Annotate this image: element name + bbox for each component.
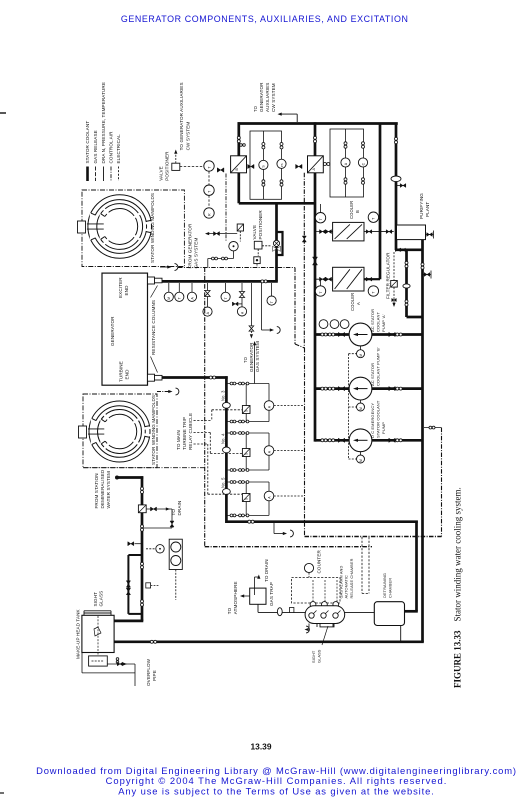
purifier riser branch valve: [396, 184, 406, 188]
gauges in right loop: [341, 142, 368, 184]
controller circle: [229, 242, 238, 251]
svg-text:AC STATOR: AC STATOR: [370, 363, 375, 386]
wire: manifold bus: [225, 376, 228, 523]
blowdown drain arrow: [249, 283, 254, 339]
svg-text:POSITIONER: POSITIONER: [165, 151, 170, 181]
svg-text:FROM STATION: FROM STATION: [94, 473, 99, 508]
svg-text:No. 3: No. 3: [220, 390, 225, 401]
svg-text:DEMINERALISED: DEMINERALISED: [100, 469, 105, 508]
positioner 2 dashes to valve: [258, 246, 271, 256]
label DC EMERGENCY STATOR COOLANT PUMP: [370, 400, 386, 438]
winding circuit No. 3 branch: [220, 382, 303, 423]
valve dots on exciter pipe: [261, 280, 267, 283]
svg-text:M: M: [167, 297, 171, 300]
pump row valve dots: [321, 333, 335, 442]
loop seal on downcomer: [277, 232, 283, 255]
svg-text:ELECTRICAL: ELECTRICAL: [116, 134, 121, 164]
label GAS TRAP: [269, 582, 274, 606]
level switch rack: [169, 539, 182, 600]
svg-text:TO: TO: [227, 607, 232, 614]
flow element on bypass: [403, 261, 410, 306]
stray scan mark left edge: [0, 113, 6, 793]
strainer B: [231, 156, 247, 173]
control air main (dash-dot): [178, 173, 306, 537]
wire: cold header to detraining: [226, 520, 417, 523]
purifier vent valve: [426, 231, 434, 239]
svg-text:TO MAIN: TO MAIN: [176, 430, 181, 450]
detraining chamber drain: [400, 626, 402, 641]
wire: exciter-end stator coolant pipe: [162, 280, 278, 283]
svg-text:T: T: [319, 292, 323, 294]
valve: strainer B outlet: [248, 164, 254, 168]
gauge T1: [204, 161, 214, 171]
gas trap outlet: [257, 604, 259, 612]
release chamber instrument dashed box: [292, 578, 341, 604]
control air left drop (dash-dot): [204, 268, 206, 547]
winding circuit No. 5 branch: [220, 477, 303, 517]
svg-text:COUNTER: COUNTER: [317, 550, 322, 574]
return bus vent valve: [423, 271, 432, 279]
make-up head tank: [82, 611, 114, 653]
wire: cooler riser: [379, 124, 382, 280]
gas trap to atmosphere: [240, 594, 250, 597]
svg-text:FIGURE 13.33 Stator winding w: FIGURE 13.33 Stator winding water coolin…: [453, 487, 463, 688]
relay cubicle dashed lines: [194, 410, 243, 494]
wire: make-up water supply: [114, 476, 143, 621]
valve positioner 1 box: [172, 163, 180, 170]
positioner relay box 2: [254, 257, 260, 268]
svg-text:T: T: [207, 191, 211, 193]
page number: [251, 742, 272, 752]
label TURBINE END: [119, 361, 130, 382]
svg-text:DRA N, PRESSURE, TEMPERATURE: DRA N, PRESSURE, TEMPERATURE: [101, 82, 106, 164]
svg-text:S: S: [245, 498, 249, 500]
svg-text:T: T: [270, 301, 274, 303]
svg-text:MAKE-UP HEAD TANK: MAKE-UP HEAD TANK: [76, 608, 81, 659]
pressure reducer on riser: [138, 487, 146, 606]
gauge T right: [267, 283, 276, 305]
svg-text:TO: TO: [243, 356, 248, 363]
instrument loop rect (left CW): [250, 131, 282, 199]
svg-text:FILTER REGULATOR: FILTER REGULATOR: [386, 252, 391, 299]
valve dots cold header: [248, 520, 254, 523]
controller relay box: [237, 224, 243, 231]
svg-text:T: T: [178, 297, 182, 299]
cooler B inlet valves: [315, 230, 333, 234]
svg-text:GENERATOR: GENERATOR: [249, 342, 254, 372]
svg-text:GLASS: GLASS: [317, 649, 322, 663]
svg-text:T: T: [224, 297, 228, 299]
label AC STATOR COOLANT PUMP B: [370, 347, 381, 386]
svg-text:DRAIN: DRAIN: [177, 501, 182, 516]
svg-text:GAS SYSTEM: GAS SYSTEM: [255, 341, 260, 372]
svg-text:END: END: [124, 285, 129, 296]
level gauge with dashes: [146, 545, 164, 553]
gas trap box: [250, 588, 266, 604]
gauge T cooler B: [315, 204, 378, 223]
wire: bypass leg: [407, 250, 423, 317]
gas release chamber vessel: [305, 602, 345, 627]
svg-text:No. 4: No. 4: [220, 433, 225, 444]
svg-text:SIGHT: SIGHT: [311, 650, 316, 663]
drain with valve and gauge A2: [232, 283, 246, 316]
svg-text:GAS SYSTEM: GAS SYSTEM: [194, 238, 199, 269]
label TO ATMOSPHERE: [227, 581, 238, 614]
svg-text:FROM GENERATOR: FROM GENERATOR: [188, 223, 193, 268]
svg-text:CW SYSTEM: CW SYSTEM: [271, 83, 276, 112]
stator winding manifold 1 enclosure (dash-dot box): [82, 190, 184, 267]
svg-text:TO: TO: [253, 105, 258, 112]
exciter end bushing: [148, 277, 163, 284]
svg-text:PLANT: PLANT: [425, 202, 430, 217]
svg-text:STATOR WINDING MANIFOLDS: STATOR WINDING MANIFOLDS: [150, 193, 155, 263]
svg-text:VALVE: VALVE: [159, 166, 164, 181]
wire: CW heat-exchanger box outline: [238, 122, 398, 441]
svg-text:T: T: [319, 218, 323, 220]
turbine end bushing: [148, 374, 163, 381]
svg-text:PIPE: PIPE: [152, 670, 157, 681]
svg-text:CHAMBER: CHAMBER: [388, 578, 393, 598]
svg-text:M: M: [359, 459, 363, 462]
to generator gas system arrow (mid): [243, 341, 260, 384]
to drain branch: [143, 501, 182, 528]
svg-text:T: T: [372, 218, 376, 220]
valve on supply bus: [313, 257, 318, 265]
svg-text:WATER SYSTEM: WATER SYSTEM: [106, 471, 111, 509]
wire: cooled water downcomer: [275, 203, 278, 281]
svg-text:COOLANT: COOLANT: [376, 312, 381, 332]
counter: [304, 550, 321, 578]
resistance column gauges: [164, 283, 196, 301]
svg-text:D C EMERGENCY: D C EMERGENCY: [370, 403, 375, 438]
svg-text:AUXILIARIES: AUXILIARIES: [265, 83, 270, 112]
label FROM STATION DEMINERALISED WATER SYSTEM: [94, 469, 111, 508]
page header running title: [121, 14, 409, 24]
svg-text:TO: TO: [171, 509, 176, 516]
svg-text:TO GENERATOR AUXILIARIES: TO GENERATOR AUXILIARIES: [179, 82, 184, 150]
svg-text:RESISTANCE COLUMNS: RESISTANCE COLUMNS: [151, 300, 156, 355]
winding circuit No. 4 branch: [220, 432, 303, 472]
svg-text:GAS RELEASE: GAS RELEASE: [93, 130, 98, 163]
stator winding manifold 2 symbol: [88, 401, 151, 462]
svg-text:A: A: [356, 302, 361, 305]
pump discharge valves: [338, 332, 402, 442]
svg-text:SIGHT: SIGHT: [93, 592, 98, 607]
label TO GENERATOR AUXILIARIES CW SYSTEM (left): [179, 82, 191, 150]
controller output to control main: [208, 251, 234, 268]
svg-text:COOLER: COOLER: [350, 293, 355, 311]
svg-text:GLASS: GLASS: [99, 591, 104, 607]
label GENERATOR: [110, 316, 115, 346]
cooler A inlet valves: [315, 277, 333, 281]
label PURIFYING PLANT: [419, 193, 430, 219]
label MAKE-UP HEAD TANK: [76, 608, 81, 659]
tank level controller: [89, 653, 119, 667]
cooler A outlet: [364, 277, 380, 281]
label AC STATOR COOLANT PUMP A: [370, 309, 386, 332]
svg-text:GAS TRAP: GAS TRAP: [269, 582, 274, 606]
label RESISTANCE COLUMNS: [151, 286, 158, 373]
svg-text:GENERATOR COMPONENTS, AUXILIAR: GENERATOR COMPONENTS, AUXILIARIES, AND E…: [121, 14, 409, 24]
svg-text:CONTROL AIR: CONTROL AIR: [109, 131, 114, 164]
footer copyright lines: [36, 765, 517, 797]
dashed junction box: [362, 537, 369, 593]
strainer A: [308, 156, 324, 173]
wire: pump row DC: [315, 439, 423, 442]
gauges in left CW loop: [259, 143, 286, 187]
generator body box: [102, 273, 148, 385]
valves on CW box left leg: [237, 136, 316, 146]
valve dots bottom header: [150, 640, 156, 643]
gauge T (pipe): [221, 283, 230, 301]
gas trap to drain: [255, 575, 261, 596]
valve positioner 2 box: [254, 241, 262, 249]
cooler B outlet: [364, 230, 394, 234]
instrument loop rect (right of strainer A): [330, 129, 364, 197]
suction strainers: [319, 320, 349, 329]
svg-text:M: M: [359, 354, 363, 357]
svg-text:PS: PS: [280, 163, 284, 167]
svg-text:OVERFLOW: OVERFLOW: [146, 658, 151, 686]
svg-text:S: S: [245, 410, 249, 412]
legend line samples and labels: [85, 82, 121, 181]
svg-text:RELEASE CHAMBER: RELEASE CHAMBER: [349, 558, 354, 598]
stator winding manifold 2 enclosure (dash-dot box): [83, 394, 157, 468]
label EXCITER END: [118, 277, 129, 298]
svg-text:COOLER: COOLER: [349, 201, 354, 219]
flow element on purifier riser: [391, 137, 401, 181]
cooler A: [333, 267, 364, 291]
label FROM GENERATOR GAS SYSTEM: [188, 223, 199, 268]
wire: pump row B: [315, 387, 423, 390]
svg-text:AC STATOR: AC STATOR: [370, 309, 375, 332]
positioner 1 signal to CW system: [174, 150, 177, 164]
svg-text:M: M: [359, 407, 363, 410]
wire: detraining chamber feed: [405, 521, 418, 612]
svg-text:POSITIONER: POSITIONER: [258, 210, 263, 240]
label TO DRAIN: [264, 559, 269, 582]
label FILTER REGULATOR: [386, 252, 391, 299]
valve dots on return bus: [421, 263, 424, 269]
relay to controller dashes: [239, 231, 241, 242]
svg-text:PUMP: PUMP: [381, 422, 386, 434]
label VALVE POSITIONER 1: [159, 151, 170, 181]
valve dots strainer A to loop: [323, 163, 329, 166]
vessel to detraining chamber: [345, 611, 375, 613]
overflow pipe: [82, 653, 135, 687]
label TO GENERATOR AUXILIARIES CW SYSTEM (top): [253, 82, 276, 112]
valves on purifier lower header: [395, 248, 405, 251]
wire: bottom return header: [114, 640, 424, 643]
manifold 1 gas vent hook: [160, 264, 178, 271]
gas line to vessel: [258, 608, 305, 616]
tank float gauge: [94, 616, 101, 652]
svg-text:TO DRAIN: TO DRAIN: [264, 559, 269, 582]
wire: sight glass loop: [128, 555, 142, 614]
vessel drain hook: [305, 624, 310, 633]
dashed signal line to temperature gauges: [180, 165, 204, 167]
svg-text:Any use is subject to the Term: Any use is subject to the Terms of Use a…: [118, 785, 435, 796]
pump motor signal dashes: [349, 354, 357, 459]
control air bottom run (dash-dot): [205, 546, 372, 548]
svg-text:DETRAINING: DETRAINING: [382, 573, 387, 598]
control valve on downcomer: [273, 240, 281, 251]
label OVERFLOW PIPE: [146, 658, 157, 686]
valve: control to strainer B: [217, 168, 224, 172]
cooler B: [333, 222, 364, 241]
label SIGHT GLASS: [93, 591, 104, 607]
svg-text:STATOR WINDING MANIFOLDS: STATOR WINDING MANIFOLDS: [151, 395, 156, 465]
label STATOR WINDING MANIFOLDS (top): [150, 193, 155, 263]
valve: strainer A inlet: [296, 164, 302, 168]
svg-text:PUMP 'A': PUMP 'A': [381, 314, 386, 332]
AC stator coolant pump B: [349, 377, 372, 411]
wire: main return bus: [421, 239, 424, 643]
wire: purifier riser: [395, 124, 398, 251]
wire: pump row A: [315, 333, 423, 336]
stator winding manifold 1 symbol: [87, 195, 152, 259]
label GAS ALARM AND AUTOMATIC RELEASE CHAMBER: [339, 558, 355, 598]
control air line to controller: [225, 174, 227, 242]
label VALVE POSITIONER 2: [252, 210, 263, 240]
valve dots on turbine pipe: [209, 376, 215, 379]
detraining chamber: [374, 602, 404, 626]
svg-text:TURBINE: TURBINE: [119, 361, 124, 382]
svg-text:END: END: [125, 369, 130, 380]
svg-text:EXCITER: EXCITER: [118, 277, 123, 298]
DC emergency stator coolant pump: [349, 429, 372, 463]
gas alarm signal (dash-dot): [305, 426, 442, 536]
svg-text:CW SYSTEM: CW SYSTEM: [186, 122, 191, 151]
svg-text:STATOR COOLANT: STATOR COOLANT: [376, 400, 381, 438]
wire: purifier lower header: [396, 248, 423, 251]
gauge T2: [204, 185, 214, 218]
gauge T cooler A: [315, 281, 378, 297]
svg-text:13.39: 13.39: [251, 742, 272, 752]
label TO MAIN TURBINE TRIP RELAY CUBICLE: [176, 413, 193, 450]
dashed link T1-T2: [208, 171, 210, 185]
manifold 2 feed connector: [79, 426, 87, 438]
label COOLER A: [350, 293, 361, 311]
figure caption: [453, 487, 463, 688]
svg-text:T: T: [207, 167, 211, 169]
svg-text:ATMOSPHERE: ATMOSPHERE: [233, 581, 238, 614]
svg-text:TURBINE TRIP: TURBINE TRIP: [182, 417, 187, 450]
svg-text:VALVE: VALVE: [252, 225, 257, 240]
svg-text:RELAY CUBICLE: RELAY CUBICLE: [188, 413, 193, 450]
valve on sight glass stub: [128, 542, 142, 546]
manifold 2 gas vent hook: [83, 388, 205, 468]
purifying plant box: [397, 225, 426, 240]
label STATOR WINDING MANIFOLDS (bottom): [151, 395, 156, 465]
relay vent arrow: [205, 232, 237, 236]
drain with valve and gauge A1: [203, 283, 212, 316]
svg-text:GENERATOR: GENERATOR: [259, 82, 264, 112]
arrow to generator auxiliaries: [278, 113, 298, 123]
label COOLER B: [349, 201, 360, 219]
cold header gas vent hook: [274, 523, 293, 537]
wire: turbine-end stator coolant pipe: [162, 376, 228, 379]
svg-text:No. 5: No. 5: [220, 477, 225, 488]
svg-text:S: S: [245, 453, 249, 455]
svg-text:Downloaded from Digital Engine: Downloaded from Digital Engineering Libr…: [36, 765, 517, 776]
svg-text:GENERATOR: GENERATOR: [110, 316, 115, 346]
svg-text:STATOR COOLANT: STATOR COOLANT: [85, 121, 90, 164]
svg-text:T: T: [372, 292, 376, 294]
AC stator coolant pump A: [349, 323, 372, 358]
svg-text:B: B: [355, 210, 360, 213]
svg-text:COOLANT PUMP 'B': COOLANT PUMP 'B': [376, 347, 381, 386]
gas vent hook under pipe: [262, 283, 281, 333]
label SIGHT GLASS (vessel): [311, 626, 328, 663]
manifold 1 feed connector: [78, 221, 86, 233]
label DETRAINING CHAMBER: [382, 573, 393, 598]
sample box S: [146, 583, 159, 588]
sight glass isolating valves: [126, 581, 130, 595]
filter regulator box with dashes: [391, 252, 398, 307]
svg-text:PURIFYING: PURIFYING: [419, 193, 424, 219]
svg-text:AUTOMATIC: AUTOMATIC: [344, 575, 349, 599]
